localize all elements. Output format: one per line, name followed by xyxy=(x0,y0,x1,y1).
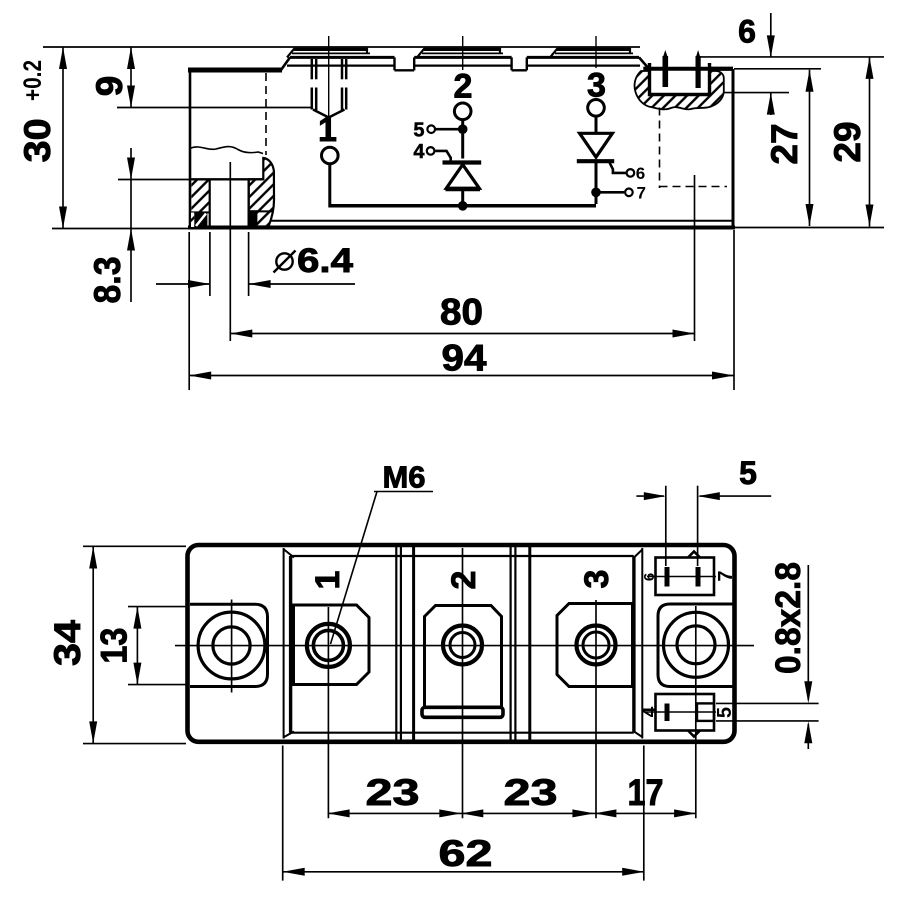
svg-text:5: 5 xyxy=(413,120,424,142)
svg-text:13: 13 xyxy=(94,628,135,664)
svg-text:34: 34 xyxy=(47,620,88,666)
svg-text:6: 6 xyxy=(636,164,645,183)
svg-text:5: 5 xyxy=(739,455,757,491)
svg-text:2: 2 xyxy=(445,571,483,590)
svg-text:1: 1 xyxy=(318,111,337,149)
svg-text:3: 3 xyxy=(587,67,606,105)
svg-text:8.3: 8.3 xyxy=(87,257,128,304)
svg-text:3: 3 xyxy=(578,570,616,589)
svg-text:0.8x2.8: 0.8x2.8 xyxy=(769,562,808,674)
svg-text:4: 4 xyxy=(413,141,425,163)
svg-text:M6: M6 xyxy=(382,460,425,495)
svg-text:94: 94 xyxy=(442,338,487,379)
svg-text:29: 29 xyxy=(827,121,868,162)
svg-text:6: 6 xyxy=(641,573,658,581)
svg-text:+0.2: +0.2 xyxy=(19,60,47,101)
svg-text:6: 6 xyxy=(738,14,756,50)
svg-text:30: 30 xyxy=(17,118,58,162)
svg-text:62: 62 xyxy=(439,833,493,874)
svg-text:7: 7 xyxy=(715,570,737,581)
svg-text:23: 23 xyxy=(366,772,420,813)
svg-text:23: 23 xyxy=(504,772,558,813)
svg-text:7: 7 xyxy=(637,184,646,203)
svg-text:2: 2 xyxy=(454,68,473,106)
svg-text:5: 5 xyxy=(714,707,736,718)
svg-text:80: 80 xyxy=(440,292,483,333)
svg-text:1: 1 xyxy=(309,571,347,590)
svg-text:4: 4 xyxy=(640,706,661,717)
svg-text:9: 9 xyxy=(89,76,130,97)
svg-text:17: 17 xyxy=(628,772,664,813)
svg-text:27: 27 xyxy=(764,123,805,164)
svg-text:6.4: 6.4 xyxy=(297,242,353,280)
